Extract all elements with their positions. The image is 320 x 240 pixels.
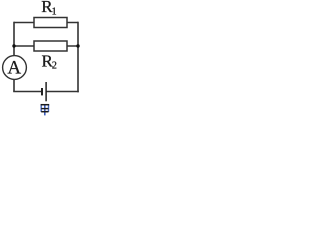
svg-text:A: A bbox=[7, 57, 21, 78]
svg-text:R1: R1 bbox=[41, 0, 56, 17]
svg-text:R2: R2 bbox=[42, 51, 57, 71]
